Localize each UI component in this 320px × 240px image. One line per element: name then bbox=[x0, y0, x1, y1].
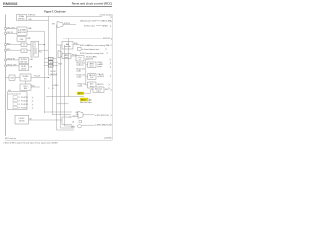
svg-text:HSI RC: HSI RC bbox=[18, 19, 25, 21]
PLLMUL list box bbox=[31, 41, 39, 57]
svg-text:/2: /2 bbox=[23, 51, 24, 53]
divider box 2 bbox=[21, 49, 27, 52]
svg-text:PLL3CLK: PLL3CLK bbox=[21, 104, 29, 106]
svg-text:40 kHz: 40 kHz bbox=[21, 69, 26, 71]
svg-text:to RTC (RTCCLK): to RTC (RTCCLK) bbox=[95, 114, 109, 117]
/8 divider bbox=[78, 47, 82, 50]
svg-text:to IWDG (IWDGCLK): to IWDG (IWDGCLK) bbox=[95, 123, 111, 126]
svg-text:HCLK: HCLK bbox=[74, 43, 78, 45]
wire periph feed vertical bbox=[86, 58, 88, 85]
svg-text:40 kHz: 40 kHz bbox=[19, 121, 25, 123]
svg-text:x2: x2 bbox=[79, 59, 81, 61]
svg-text:/4: /4 bbox=[18, 104, 19, 106]
divider box 1 bbox=[21, 43, 27, 46]
divider box c bbox=[49, 64, 54, 67]
PLL box bbox=[20, 74, 31, 81]
pin PLL row 2 bbox=[5, 49, 7, 51]
svg-text:PLLMUL: PLLMUL bbox=[22, 76, 28, 78]
svg-text:x12,x13: x12,x13 bbox=[32, 50, 37, 52]
junction dot bbox=[44, 44, 45, 45]
figure frame right edge bbox=[111, 14, 113, 140]
svg-text:PD0: PD0 bbox=[7, 43, 10, 45]
svg-text:x6, x7: x6, x7 bbox=[32, 44, 36, 46]
svg-text:/1: /1 bbox=[18, 97, 19, 99]
CSS box bbox=[17, 37, 26, 41]
svg-text:32.768 k: 32.768 k bbox=[21, 59, 27, 61]
svg-text:Figure 7. Clock tree: Figure 7. Clock tree bbox=[44, 10, 66, 14]
wire HSE to bus bbox=[27, 31, 44, 113]
svg-text:FCLK Cortex free running clock: FCLK Cortex free running clock bbox=[80, 52, 104, 55]
IWDG gate bbox=[78, 125, 82, 128]
svg-text:enable (1): enable (1) bbox=[76, 65, 84, 67]
legend row 3 bbox=[13, 103, 17, 106]
PLLSRC label box bbox=[9, 75, 15, 80]
svg-text:x8, x9: x8, x9 bbox=[32, 46, 36, 48]
svg-text:Periph clock: Periph clock bbox=[76, 63, 85, 65]
svg-text:4-16 MHz: 4-16 MHz bbox=[18, 29, 26, 31]
svg-text:PLLVCO clock: PLLVCO clock bbox=[84, 25, 95, 27]
HSE OSC box bbox=[17, 27, 27, 35]
svg-text:Reset and clock control (RCC): Reset and clock control (RCC) bbox=[72, 2, 112, 6]
LSE OSC box bbox=[19, 57, 29, 63]
svg-text:Periph clock: Periph clock bbox=[76, 68, 85, 70]
svg-text:PLL1CLK: PLL1CLK bbox=[21, 97, 29, 99]
svg-text:/8: /8 bbox=[50, 66, 51, 68]
wire OSC32_OUT pin to LSE box bbox=[6, 65, 19, 67]
svg-text:LSE: LSE bbox=[30, 59, 33, 61]
wire RTC out bbox=[83, 114, 95, 116]
svg-text:LSI RC: LSI RC bbox=[21, 66, 27, 68]
wires into RTC mux bbox=[44, 111, 72, 113]
svg-text:Main clock: Main clock bbox=[95, 88, 102, 90]
svg-text:enable: enable bbox=[78, 86, 83, 88]
svg-text:TIMxCLK: TIMxCLK bbox=[89, 75, 95, 77]
RTC mux bbox=[78, 111, 83, 118]
svg-text:CSSF: CSSF bbox=[27, 38, 31, 40]
svg-text:PD1: PD1 bbox=[7, 49, 10, 51]
svg-text:PLLVCO: PLLVCO bbox=[21, 107, 28, 109]
svg-text:SYSCLK: SYSCLK bbox=[64, 23, 70, 25]
svg-text:x1,x2: x1,x2 bbox=[90, 77, 94, 79]
svg-text:LSE: LSE bbox=[75, 112, 78, 114]
APB2 prescaler box bbox=[88, 62, 97, 67]
svg-text:IWDG: IWDG bbox=[71, 126, 75, 128]
svg-text:PLL3CLK: PLL3CLK bbox=[52, 85, 58, 87]
svg-text:presc: presc bbox=[90, 66, 94, 68]
wire OSC_IN pin to HSE box bbox=[6, 32, 17, 34]
wire PLLMUL out 1 bbox=[39, 44, 45, 46]
TIMx mult box bbox=[88, 74, 97, 79]
svg-text:Periph clock: Periph clock bbox=[78, 84, 87, 86]
wire OSC_OUT pin to HSE box bbox=[6, 28, 17, 30]
svg-text:x4, x5: x4, x5 bbox=[32, 42, 36, 44]
svg-text:MUL: MUL bbox=[24, 88, 27, 90]
AHB prescaler box bbox=[62, 42, 73, 50]
wire horizontal mid bbox=[48, 74, 56, 76]
bus verticals bbox=[61, 45, 75, 128]
wire yellow1 to MCO box bbox=[84, 90, 93, 94]
HCLK row bbox=[76, 44, 80, 46]
chip edge line bbox=[5, 15, 7, 137]
OSC_OUT pin bbox=[5, 28, 7, 30]
svg-text:x10,x11: x10,x11 bbox=[32, 48, 37, 50]
svg-text:OSC32_IN: OSC32_IN bbox=[7, 59, 16, 61]
legend row 4 bbox=[13, 106, 17, 109]
svg-text:PLLCLK: PLLCLK bbox=[34, 76, 41, 78]
MCO highlight 2 bbox=[80, 98, 88, 101]
MCO output box bbox=[93, 87, 104, 92]
svg-text:enable: enable bbox=[76, 70, 81, 72]
clock mux trapezoid bbox=[58, 51, 62, 59]
figure frame bottom edge bbox=[5, 139, 112, 141]
svg-text:/8: /8 bbox=[18, 107, 19, 109]
svg-text:CSS: CSS bbox=[10, 77, 13, 79]
wire HSI down bus bbox=[27, 16, 49, 75]
MCO highlight 1 bbox=[77, 92, 84, 95]
divider box a bbox=[49, 57, 54, 60]
svg-text:/4: /4 bbox=[50, 62, 51, 64]
OSC_IN pin bbox=[5, 32, 7, 34]
wire OSC32_IN pin to LSE box bbox=[6, 59, 19, 61]
svg-text:/2: /2 bbox=[48, 88, 49, 90]
svg-text:PLL2: PLL2 bbox=[24, 86, 28, 88]
svg-text:MCO: MCO bbox=[81, 100, 86, 102]
svg-text:HSE: HSE bbox=[28, 28, 31, 30]
svg-text:HSE OSC: HSE OSC bbox=[18, 32, 27, 34]
PLL2 box bbox=[20, 84, 31, 90]
legend box bbox=[8, 92, 28, 110]
svg-text:x14,x15: x14,x15 bbox=[32, 52, 37, 54]
svg-text:enable: enable bbox=[77, 77, 82, 79]
svg-text:OSC_OUT: OSC_OUT bbox=[7, 27, 15, 29]
svg-text:USBCLK 48M: USBCLK 48M bbox=[101, 21, 112, 23]
legend row 2 bbox=[13, 99, 17, 102]
svg-text:PLL: PLL bbox=[24, 78, 27, 80]
svg-text:LSI RC: LSI RC bbox=[19, 118, 25, 120]
svg-text:OSC32_OUT: OSC32_OUT bbox=[7, 65, 17, 67]
svg-text:/2: /2 bbox=[18, 100, 19, 102]
svg-text:to Cortex System timer: to Cortex System timer bbox=[82, 48, 100, 51]
svg-text:USB prescaler /1,1.5: USB prescaler /1,1.5 bbox=[80, 20, 96, 23]
svg-text:/2: /2 bbox=[50, 59, 51, 61]
wire HSI to right bbox=[27, 15, 103, 17]
svg-text:PLL2CLK: PLL2CLK bbox=[21, 100, 29, 102]
svg-text:PLL: PLL bbox=[39, 52, 42, 54]
OSC32_OUT pin bbox=[5, 65, 7, 67]
svg-text:TIMxCLK: TIMxCLK bbox=[98, 74, 104, 76]
svg-text:HCLK to AHB bus, core, memory,: HCLK to AHB bus, core, memory, DMA bbox=[80, 44, 110, 47]
svg-text:x1 x1.5 x2 x2.5 x3: x1 x1.5 x2 x2.5 x3 bbox=[8, 94, 20, 96]
svg-text:RM0008: RM0008 bbox=[3, 2, 17, 6]
svg-text:MCO: MCO bbox=[78, 93, 83, 95]
svg-text:HSE/128: HSE/128 bbox=[72, 116, 78, 118]
svg-text:48 MHz: 48 MHz bbox=[102, 25, 108, 27]
pin PLL row 1 bbox=[5, 44, 7, 46]
svg-text:OSC_IN: OSC_IN bbox=[7, 32, 14, 34]
APB1 prescaler box bbox=[62, 54, 71, 59]
svg-text:FLITFCLK: FLITFCLK bbox=[28, 14, 36, 16]
HSI RC oscillator box bbox=[17, 15, 27, 21]
LSI RC box bbox=[15, 115, 29, 124]
MCO pointer bbox=[89, 98, 93, 102]
legend row 1 bbox=[13, 96, 17, 99]
svg-text:PCLK2: PCLK2 bbox=[98, 62, 103, 64]
svg-text:PLL2: PLL2 bbox=[32, 85, 36, 87]
wire chip line to CSS bbox=[6, 77, 10, 79]
wire PLLMUL out 2 bbox=[39, 49, 49, 51]
svg-text:ai14752b: ai14752b bbox=[104, 137, 111, 139]
SW mux bbox=[57, 22, 63, 28]
svg-text:LSE OSC: LSE OSC bbox=[20, 61, 28, 63]
OSC32_IN pin bbox=[5, 59, 7, 61]
SYSCLK bus down bbox=[57, 25, 75, 131]
svg-text:Periph clock: Periph clock bbox=[77, 75, 86, 77]
svg-text:prescaler: prescaler bbox=[64, 46, 71, 48]
wire MCO left bbox=[46, 96, 84, 98]
wire LSI out bbox=[29, 120, 73, 125]
svg-text:/2: /2 bbox=[23, 45, 24, 47]
svg-text:SDIOCLK: SDIOCLK bbox=[103, 38, 111, 40]
ADC prescaler box bbox=[88, 82, 97, 88]
LSE second box bbox=[19, 64, 29, 70]
svg-text:PLLCLK: PLLCLK bbox=[51, 71, 56, 73]
wire IWDG out bbox=[82, 124, 95, 126]
TIM multiplier box bbox=[76, 56, 84, 61]
wire SYSCLK bbox=[63, 24, 76, 26]
header rule bbox=[3, 6, 112, 8]
divider box b bbox=[49, 61, 54, 64]
svg-text:x16: x16 bbox=[32, 54, 34, 56]
